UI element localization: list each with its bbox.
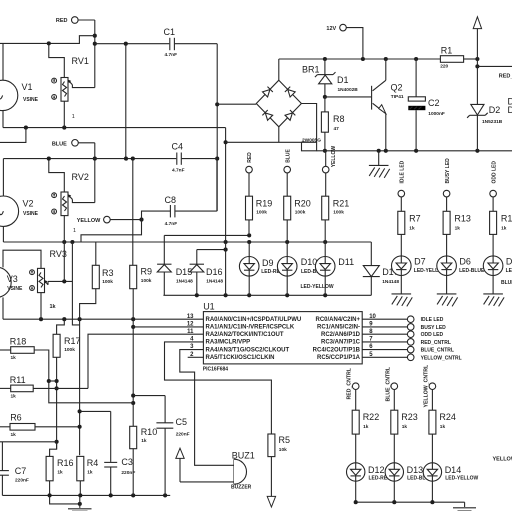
wire xyxy=(317,150,325,152)
resistor R18 xyxy=(10,337,34,361)
resistor R24 xyxy=(429,410,456,434)
svg-text:ODD LED: ODD LED xyxy=(491,161,497,184)
wire xyxy=(133,326,203,328)
svg-text:BUZ1: BUZ1 xyxy=(232,451,255,461)
wire xyxy=(3,126,226,130)
wire xyxy=(182,158,218,160)
svg-text:D7: D7 xyxy=(414,257,426,267)
svg-text:PIC16F684: PIC16F684 xyxy=(203,366,229,372)
power down arrow xyxy=(267,496,275,507)
wire xyxy=(400,197,402,256)
svg-text:RC0/AN4/C2IN+: RC0/AN4/C2IN+ xyxy=(315,317,360,323)
svg-text:R17: R17 xyxy=(64,336,81,346)
led D14 xyxy=(423,463,478,482)
bridge rectifier BR1 xyxy=(256,65,319,127)
wire xyxy=(476,115,478,151)
wire xyxy=(78,20,95,88)
svg-text:D2: D2 xyxy=(489,105,501,115)
svg-text:RC2/AN6/P1D: RC2/AN6/P1D xyxy=(321,332,361,338)
ground xyxy=(392,294,413,307)
wire xyxy=(164,233,251,237)
wire xyxy=(78,319,82,455)
wire xyxy=(72,85,94,88)
wire xyxy=(49,380,57,382)
terminal RED input xyxy=(246,166,253,173)
wire xyxy=(0,442,57,493)
wire xyxy=(180,481,234,483)
wire xyxy=(175,43,217,45)
terminal BLUE input xyxy=(284,166,291,173)
label RED_ xyxy=(499,74,512,80)
svg-text:D14: D14 xyxy=(445,465,462,475)
ground xyxy=(369,151,390,178)
svg-text:R5: R5 xyxy=(279,435,291,445)
wire xyxy=(0,128,26,143)
capacitor C5 xyxy=(156,417,189,438)
wire xyxy=(464,57,480,68)
svg-text:C3: C3 xyxy=(121,457,133,467)
svg-text:1k: 1k xyxy=(455,225,461,231)
resistor R3 xyxy=(92,265,113,288)
svg-text:R20: R20 xyxy=(294,198,311,208)
resistor R7 xyxy=(398,211,421,234)
capacitor C4 xyxy=(172,142,185,174)
svg-text:1N5231B: 1N5231B xyxy=(482,119,503,125)
wire xyxy=(72,199,94,202)
svg-text:D9: D9 xyxy=(262,258,274,268)
wire xyxy=(57,319,65,334)
potentiometer RV3 xyxy=(30,268,57,310)
svg-text:R23: R23 xyxy=(401,412,418,422)
wire xyxy=(226,127,317,143)
transistor Q2 xyxy=(372,80,404,113)
svg-text:D12: D12 xyxy=(368,465,385,475)
wire xyxy=(323,59,327,99)
potentiometer RV1 xyxy=(52,56,89,120)
wire xyxy=(78,143,97,203)
wire xyxy=(81,220,142,242)
svg-text:RA1/AN1/C1IN-/VREF/ICSPCLK: RA1/AN1/C1IN-/VREF/ICSPCLK xyxy=(206,325,295,331)
svg-text:IDLE LED: IDLE LED xyxy=(421,317,444,323)
terminal 12V xyxy=(326,24,346,32)
pin 10 xyxy=(362,316,444,323)
wire xyxy=(477,65,512,67)
resistor R1 xyxy=(440,46,463,70)
svg-text:R10: R10 xyxy=(141,427,158,437)
svg-text:4.7nF: 4.7nF xyxy=(165,52,178,58)
svg-text:47: 47 xyxy=(334,126,340,132)
svg-text:Q2: Q2 xyxy=(391,83,403,93)
svg-text:BLUE_CNTRL: BLUE_CNTRL xyxy=(421,348,454,354)
resistor R11 xyxy=(10,375,33,399)
svg-text:BLUE: BLUE xyxy=(501,280,512,286)
svg-text:LED-BLUE: LED-BLUE xyxy=(459,268,485,274)
svg-text:BLUE: BLUE xyxy=(285,149,291,163)
wire xyxy=(131,289,135,427)
svg-text:1k: 1k xyxy=(87,470,93,476)
svg-text:R21: R21 xyxy=(333,198,350,208)
resistor R22 xyxy=(352,410,379,434)
svg-text:V2: V2 xyxy=(23,199,34,209)
svg-text:1N4148: 1N4148 xyxy=(206,279,223,285)
wire xyxy=(270,457,272,496)
svg-text:R16: R16 xyxy=(57,458,74,468)
diode D17 xyxy=(363,266,400,285)
wire xyxy=(133,396,165,496)
voltage source V3 xyxy=(0,267,23,297)
svg-text:C1: C1 xyxy=(164,27,176,37)
led D10 xyxy=(277,257,327,277)
terminal ODD LED xyxy=(490,161,497,197)
svg-text:1k: 1k xyxy=(409,225,415,231)
svg-text:U1: U1 xyxy=(203,301,215,311)
resistor R6 xyxy=(10,413,35,438)
wire xyxy=(286,242,288,295)
wire xyxy=(224,128,228,296)
svg-text:1k: 1k xyxy=(11,393,17,399)
wire xyxy=(446,197,448,256)
svg-text:VSINE: VSINE xyxy=(23,211,39,217)
svg-text:4.7nF: 4.7nF xyxy=(165,221,178,227)
terminal RED xyxy=(56,17,78,25)
resistor R9 xyxy=(130,265,152,288)
wire xyxy=(370,242,372,295)
pin 7 xyxy=(362,339,451,346)
wire xyxy=(2,110,4,127)
wire xyxy=(142,211,171,220)
diode D1 xyxy=(315,72,358,93)
pin 6 xyxy=(362,346,454,353)
svg-text:D1: D1 xyxy=(337,75,349,85)
wire xyxy=(132,449,134,496)
wire xyxy=(3,250,41,268)
wire xyxy=(355,481,357,502)
svg-text:RC5/CCP1/P1A: RC5/CCP1/P1A xyxy=(317,355,361,361)
terminal BUSY LED xyxy=(443,158,450,197)
resistor R13 xyxy=(443,211,471,234)
svg-text:R3: R3 xyxy=(102,268,114,278)
svg-text:1000nF: 1000nF xyxy=(428,111,445,117)
wire xyxy=(48,279,72,284)
svg-text:100k: 100k xyxy=(141,278,152,284)
wire xyxy=(125,44,127,159)
pin 5 xyxy=(362,354,462,361)
svg-text:D: D xyxy=(508,105,512,115)
svg-text:YELLOW_CNTRL: YELLOW_CNTRL xyxy=(423,364,429,407)
label YELLOW vertical xyxy=(331,146,337,168)
svg-text:1k: 1k xyxy=(501,225,507,231)
label YELLOW fragment xyxy=(493,456,512,462)
svg-text:RA2/AN2/T0CKI/INT/C1OUT: RA2/AN2/T0CKI/INT/C1OUT xyxy=(206,332,284,338)
terminal RED_CNTRL xyxy=(347,367,359,399)
resistor R8 xyxy=(321,112,344,132)
wire xyxy=(325,149,512,153)
svg-text:RV1: RV1 xyxy=(72,56,89,66)
led D13 xyxy=(385,463,433,482)
wire xyxy=(3,240,371,244)
ground xyxy=(453,502,476,511)
wire xyxy=(163,293,371,297)
wire xyxy=(2,226,4,242)
svg-text:D6: D6 xyxy=(459,257,471,267)
wire xyxy=(215,44,219,211)
wire xyxy=(301,104,316,143)
svg-text:V3: V3 xyxy=(7,274,18,284)
wire xyxy=(400,276,402,294)
svg-text:1N4148: 1N4148 xyxy=(176,279,193,285)
wire xyxy=(2,297,4,319)
svg-text:LED-BLUE: LED-BLUE xyxy=(506,268,512,274)
diode D16 xyxy=(190,264,224,284)
svg-text:BUSY LED: BUSY LED xyxy=(421,325,447,331)
wire xyxy=(163,235,165,295)
svg-text:YELLOW: YELLOW xyxy=(331,146,337,168)
svg-text:RED_: RED_ xyxy=(499,74,512,80)
svg-text:R6: R6 xyxy=(10,413,22,423)
pin 8 xyxy=(362,331,443,338)
wire xyxy=(415,59,417,151)
svg-text:220nF: 220nF xyxy=(15,477,29,483)
wire xyxy=(47,157,65,192)
wire xyxy=(110,218,143,222)
voltage source V1 xyxy=(0,80,39,110)
svg-text:D10: D10 xyxy=(301,257,318,267)
wire xyxy=(0,426,80,428)
svg-text:1N4002B: 1N4002B xyxy=(338,87,359,93)
terminal BLUE xyxy=(52,140,78,148)
led D11 xyxy=(301,257,355,291)
svg-text:C7: C7 xyxy=(15,466,27,476)
wire xyxy=(188,356,204,358)
svg-text:C5: C5 xyxy=(176,417,188,427)
label RV3 xyxy=(50,249,67,259)
node xyxy=(93,34,97,46)
wire xyxy=(2,43,4,80)
wire xyxy=(47,41,65,77)
svg-text:BLUE: BLUE xyxy=(52,141,67,147)
resistor R19 xyxy=(246,196,273,220)
wire xyxy=(80,289,96,320)
svg-text:1k: 1k xyxy=(11,432,17,438)
label BLUE fragment xyxy=(501,280,512,286)
svg-text:V1: V1 xyxy=(22,82,33,92)
resistor R4 xyxy=(77,456,99,480)
ground xyxy=(483,294,504,307)
svg-text:R19: R19 xyxy=(256,198,273,208)
wire xyxy=(279,57,441,61)
svg-text:D13: D13 xyxy=(407,465,424,475)
svg-text:RED_CNTRL: RED_CNTRL xyxy=(347,367,353,399)
wire xyxy=(323,97,327,153)
svg-text:RED: RED xyxy=(56,18,68,24)
terminal YELLOW input xyxy=(322,166,329,173)
svg-text:RA4/AN3/T1G/OSC2/CLKOUT: RA4/AN3/T1G/OSC2/CLKOUT xyxy=(206,347,290,353)
svg-text:RA0/AN0/C1IN+/ICSPDAT/ULPWU: RA0/AN0/C1IN+/ICSPDAT/ULPWU xyxy=(206,317,302,323)
wire xyxy=(286,173,288,242)
wire xyxy=(3,317,203,321)
svg-text:BR1: BR1 xyxy=(302,65,320,75)
svg-text:1k: 1k xyxy=(141,438,147,444)
wire xyxy=(180,350,234,466)
wire xyxy=(3,157,176,161)
wire xyxy=(325,151,327,167)
svg-text:RC3/AN7/P1C: RC3/AN7/P1C xyxy=(321,340,361,346)
led D12 xyxy=(347,463,392,482)
wire xyxy=(55,357,59,449)
svg-text:2W005G: 2W005G xyxy=(302,138,321,144)
led D7 xyxy=(392,256,448,276)
svg-text:IDLE LED: IDLE LED xyxy=(400,160,406,183)
svg-text:LED-YELLOW: LED-YELLOW xyxy=(301,284,334,290)
wire xyxy=(197,248,228,296)
svg-text:R4: R4 xyxy=(87,458,99,468)
component 2W005G xyxy=(302,138,322,151)
voltage source V2 xyxy=(0,196,39,226)
svg-text:R8: R8 xyxy=(333,114,345,124)
svg-text:100k: 100k xyxy=(295,209,306,215)
svg-text:1k: 1k xyxy=(402,424,408,430)
wire xyxy=(324,242,326,295)
capacitor C2 xyxy=(408,97,445,117)
svg-text:D16: D16 xyxy=(206,267,223,277)
wire xyxy=(278,59,280,80)
wire xyxy=(2,159,4,196)
svg-text:1k: 1k xyxy=(50,304,57,310)
wire xyxy=(492,276,494,294)
terminal BLUE_CNTRL xyxy=(385,366,397,401)
capacitor C3 xyxy=(104,457,135,476)
wire xyxy=(2,493,170,497)
svg-text:13: 13 xyxy=(187,314,194,320)
svg-text:LED-YELLOW: LED-YELLOW xyxy=(445,476,478,482)
svg-text:C8: C8 xyxy=(165,195,177,205)
svg-text:1k: 1k xyxy=(363,424,369,430)
wire xyxy=(446,276,448,294)
svg-text:D5: D5 xyxy=(506,257,512,267)
capacitor C7 xyxy=(0,466,29,483)
node xyxy=(124,42,128,46)
wire xyxy=(393,481,395,502)
resistor R5 xyxy=(268,434,290,457)
svg-text:R18: R18 xyxy=(10,337,27,347)
wire xyxy=(110,467,112,495)
terminal YELLOW xyxy=(77,216,110,224)
svg-text:YELLOW: YELLOW xyxy=(77,218,101,224)
wire xyxy=(431,481,433,502)
wire xyxy=(0,36,95,44)
terminal YELLOW_CNTRL xyxy=(423,364,435,407)
svg-text:R7: R7 xyxy=(409,214,421,224)
wire xyxy=(217,103,256,105)
wire xyxy=(385,59,387,151)
wire xyxy=(431,390,433,463)
op-amp U1 xyxy=(187,301,377,372)
svg-text:1k: 1k xyxy=(440,424,446,430)
wire xyxy=(34,350,133,403)
svg-text:YELLOW_CNTRL: YELLOW_CNTRL xyxy=(421,355,462,361)
resistor R10 xyxy=(130,426,158,448)
wire xyxy=(1,493,3,495)
svg-text:VSINE: VSINE xyxy=(7,286,23,292)
svg-text:100k: 100k xyxy=(333,209,344,215)
wire xyxy=(72,242,79,325)
svg-text:VSINE: VSINE xyxy=(23,97,39,103)
wire xyxy=(79,481,81,496)
svg-text:D11: D11 xyxy=(338,257,354,267)
ground xyxy=(437,294,458,307)
wire xyxy=(63,242,65,281)
wire xyxy=(354,500,465,504)
wire xyxy=(393,390,395,463)
svg-text:ODD LED: ODD LED xyxy=(421,332,444,338)
resistor R21 xyxy=(322,196,350,220)
power arrow xyxy=(473,17,481,105)
diode D15 xyxy=(157,264,193,284)
wire xyxy=(63,101,65,127)
resistor R23 xyxy=(391,410,418,434)
led D5 xyxy=(483,256,512,276)
svg-text:100k: 100k xyxy=(64,347,75,353)
terminal IDLE LED xyxy=(398,160,406,197)
svg-text:R22: R22 xyxy=(363,412,380,422)
svg-text:RC1/AN5/C2IN-: RC1/AN5/C2IN- xyxy=(317,325,360,331)
svg-text:R11: R11 xyxy=(10,375,26,385)
svg-text:RV2: RV2 xyxy=(72,172,89,182)
resistor R15 xyxy=(490,211,512,234)
wire xyxy=(80,411,111,462)
resistor R20 xyxy=(284,196,311,220)
wire xyxy=(248,173,250,235)
led D6 xyxy=(437,256,485,276)
svg-text:12V: 12V xyxy=(326,26,336,32)
wire xyxy=(175,159,217,212)
wire xyxy=(355,390,357,463)
svg-text:RED: RED xyxy=(247,152,253,163)
pin 9 xyxy=(362,324,446,331)
svg-text:C4: C4 xyxy=(172,142,184,152)
svg-text:100k: 100k xyxy=(102,279,113,285)
led D9 xyxy=(239,257,283,277)
svg-text:1k: 1k xyxy=(57,470,63,476)
capacitor C8 xyxy=(165,195,178,227)
label RED vertical xyxy=(247,152,253,163)
wire xyxy=(95,43,170,45)
ground xyxy=(50,495,92,511)
svg-text:RED_CNTRL: RED_CNTRL xyxy=(421,340,451,346)
svg-text:100k: 100k xyxy=(256,209,267,215)
wire xyxy=(49,481,51,496)
wire xyxy=(95,242,97,265)
svg-text:R9: R9 xyxy=(141,267,153,277)
buzzer BUZ1 xyxy=(231,451,255,491)
svg-text:10k: 10k xyxy=(279,447,287,453)
wire xyxy=(63,216,65,242)
svg-text:220nF: 220nF xyxy=(176,431,190,437)
svg-text:RC4/C2OUT/P1B: RC4/C2OUT/P1B xyxy=(313,347,361,353)
svg-text:R1: R1 xyxy=(441,46,453,56)
wire xyxy=(50,442,57,457)
wire xyxy=(248,242,250,295)
svg-text:BUZZER: BUZZER xyxy=(231,485,252,491)
svg-text:TIP41: TIP41 xyxy=(391,94,404,100)
potentiometer RV2 xyxy=(52,172,89,234)
svg-text:C2: C2 xyxy=(428,98,440,108)
svg-text:R13: R13 xyxy=(454,214,471,224)
diode D2 xyxy=(467,104,503,125)
wire xyxy=(132,159,134,266)
wire xyxy=(492,197,494,256)
wire xyxy=(0,387,88,389)
